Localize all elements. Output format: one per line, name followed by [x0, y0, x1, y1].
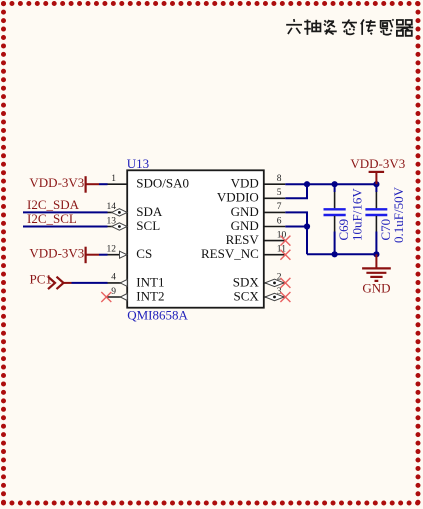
svg-text:INT2: INT2	[136, 288, 164, 303]
svg-text:RESV: RESV	[226, 232, 260, 247]
svg-text:VDD-3V3: VDD-3V3	[29, 245, 84, 260]
svg-text:QMI8658A: QMI8658A	[127, 308, 188, 323]
ground GND symbol	[362, 254, 391, 281]
svg-text:PC1: PC1	[30, 271, 52, 286]
svg-text:GND: GND	[231, 218, 259, 233]
pin 12 CS	[107, 245, 153, 262]
svg-text:SDX: SDX	[233, 274, 260, 289]
svg-text:11: 11	[277, 245, 286, 255]
pin 10 RESV	[226, 230, 287, 247]
IC U13 box	[127, 170, 264, 307]
svg-text:12: 12	[107, 245, 117, 255]
svg-text:I2C_SDA: I2C_SDA	[27, 197, 80, 212]
wire pin 6 to junction	[285, 226, 307, 228]
no-connect X pin 3	[280, 292, 290, 302]
svg-text:6: 6	[277, 216, 282, 226]
pin 4 INT1	[107, 273, 164, 290]
capacitor C69	[324, 184, 346, 254]
pin 9 INT2	[107, 287, 164, 304]
svg-text:VDDIO: VDDIO	[217, 190, 259, 205]
svg-text:VDD-3V3: VDD-3V3	[350, 156, 405, 171]
pin 2 SDX	[233, 273, 286, 290]
svg-text:VDD-3V3: VDD-3V3	[29, 175, 84, 190]
wire VDD rail (pin 8 to C70/VDD)	[285, 183, 376, 185]
pin 11 RESV_NC	[201, 245, 286, 262]
junction C70 bottom / GND stem	[373, 251, 379, 257]
title 六轴姿态传感器	[286, 19, 413, 36]
svg-text:7: 7	[277, 202, 282, 212]
svg-text:9: 9	[111, 287, 116, 297]
svg-text:SDO/SA0: SDO/SA0	[136, 176, 189, 191]
svg-text:VDD: VDD	[231, 176, 259, 191]
svg-text:CS: CS	[136, 246, 152, 261]
junction C69 top	[332, 181, 338, 187]
svg-text:5: 5	[277, 188, 282, 198]
svg-text:U13: U13	[127, 156, 149, 171]
svg-text:14: 14	[107, 202, 117, 212]
power port VDD-3V3 top right	[350, 156, 405, 184]
wire pin 5 up to VDD rail	[285, 184, 307, 198]
pin 8 VDD	[231, 174, 286, 191]
wire VDD-3V3 to pin 12	[99, 254, 108, 256]
wire pin 7 down to GND rail	[285, 212, 307, 254]
svg-text:SDA: SDA	[136, 204, 163, 219]
svg-text:0.1uF/50V: 0.1uF/50V	[391, 186, 406, 243]
svg-text:13: 13	[107, 216, 117, 226]
wire I2C_SDA to pin 14	[23, 211, 108, 213]
pin 7 GND	[231, 202, 286, 219]
svg-text:1: 1	[111, 174, 116, 184]
wire I2C_SCL to pin 13	[23, 226, 108, 228]
svg-text:GND: GND	[231, 204, 259, 219]
svg-text:GND: GND	[362, 280, 390, 295]
pin 6 GND	[231, 216, 286, 233]
svg-text:SCX: SCX	[234, 288, 260, 303]
pin 13 SCL	[107, 216, 161, 233]
wire GND rail	[307, 253, 376, 255]
wire VDD-3V3 to pin 1	[99, 183, 108, 185]
power port VDD-3V3 at pin 12	[29, 245, 99, 263]
no-connect X pin 11	[280, 250, 290, 260]
junction pin5/VDD rail	[304, 181, 310, 187]
wire PC1 to pin 4	[72, 282, 108, 284]
no-connect X pin 9	[101, 292, 111, 302]
svg-text:10: 10	[277, 230, 287, 240]
junction C70/VDD stem	[373, 181, 379, 187]
pin 5 VDDIO	[217, 188, 285, 205]
pin 14 SDA	[107, 202, 163, 219]
capacitor C70	[365, 184, 387, 254]
svg-text:RESV_NC: RESV_NC	[201, 246, 259, 261]
junction C69 bottom	[332, 251, 338, 257]
no-connect X pin 2	[280, 278, 290, 288]
pin 3 SCX	[234, 287, 286, 304]
svg-text:4: 4	[111, 273, 116, 283]
svg-text:8: 8	[277, 174, 282, 184]
power port VDD-3V3 at pin 1	[29, 175, 99, 193]
pin 1 SDO/SA0	[107, 174, 189, 191]
junction pin6/GND branch	[304, 223, 310, 229]
svg-text:10uF/16V: 10uF/16V	[350, 188, 365, 241]
svg-text:I2C_SCL: I2C_SCL	[27, 211, 77, 226]
port PC1	[30, 271, 72, 289]
svg-text:INT1: INT1	[136, 274, 164, 289]
svg-text:SCL: SCL	[136, 218, 160, 233]
no-connect X pin 10	[280, 236, 290, 246]
